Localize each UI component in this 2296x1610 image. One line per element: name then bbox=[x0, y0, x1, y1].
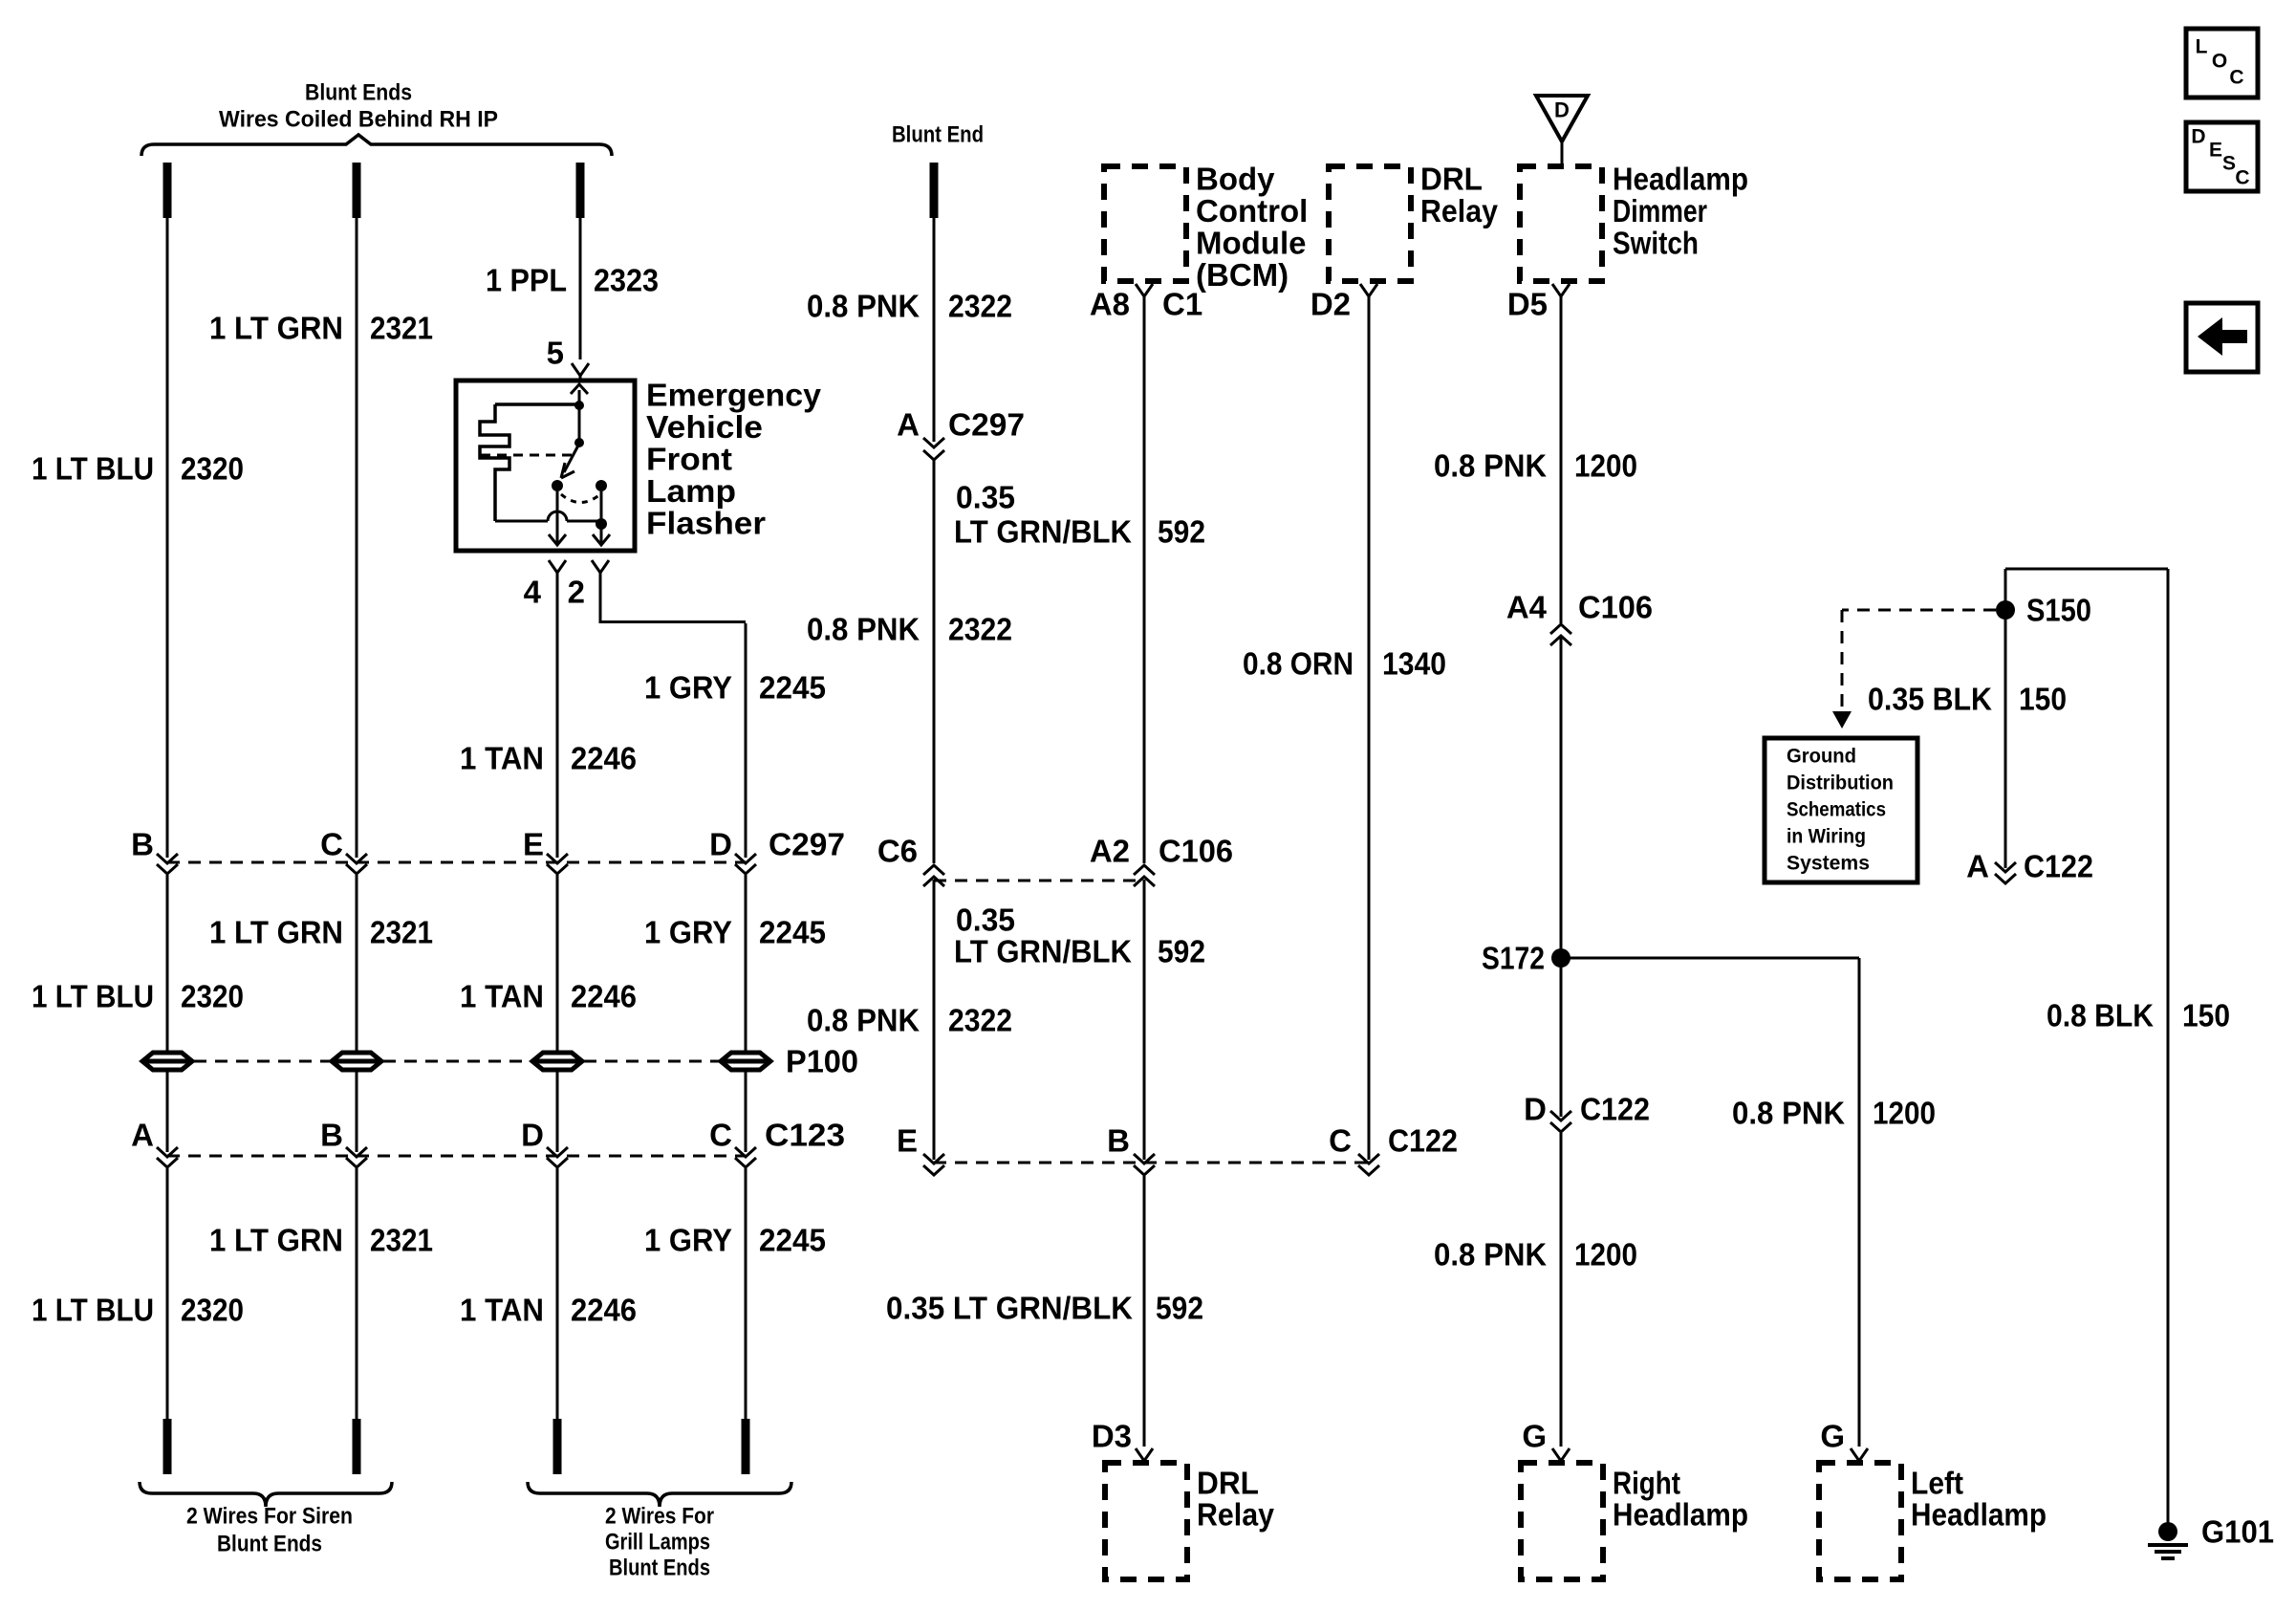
svg-text:Right: Right bbox=[1613, 1466, 1680, 1501]
svg-text:C123: C123 bbox=[765, 1118, 845, 1153]
svg-text:A: A bbox=[131, 1118, 154, 1153]
svg-text:Distribution: Distribution bbox=[1787, 772, 1894, 794]
svg-text:1 GRY: 1 GRY bbox=[644, 915, 732, 950]
svg-text:C106: C106 bbox=[1159, 834, 1233, 869]
svg-text:Front: Front bbox=[646, 442, 732, 477]
svg-text:C: C bbox=[320, 827, 343, 862]
svg-text:O: O bbox=[2212, 51, 2227, 73]
svg-text:150: 150 bbox=[2182, 998, 2230, 1033]
svg-text:2321: 2321 bbox=[370, 915, 433, 950]
svg-text:in Wiring: in Wiring bbox=[1787, 826, 1866, 848]
svg-text:Ground: Ground bbox=[1787, 746, 1856, 768]
svg-text:B: B bbox=[131, 827, 154, 862]
svg-text:C6: C6 bbox=[877, 834, 918, 869]
svg-text:2 Wires For Siren: 2 Wires For Siren bbox=[186, 1504, 353, 1530]
svg-text:D3: D3 bbox=[1092, 1419, 1132, 1454]
svg-text:C122: C122 bbox=[1388, 1123, 1458, 1159]
svg-text:1 PPL: 1 PPL bbox=[486, 263, 567, 298]
svg-text:LT GRN/BLK: LT GRN/BLK bbox=[954, 934, 1132, 969]
svg-text:2245: 2245 bbox=[759, 915, 826, 950]
svg-text:1200: 1200 bbox=[1574, 448, 1637, 484]
svg-text:2246: 2246 bbox=[571, 979, 637, 1014]
svg-text:1 LT GRN: 1 LT GRN bbox=[209, 915, 343, 950]
svg-text:1 LT BLU: 1 LT BLU bbox=[32, 979, 154, 1014]
svg-text:Blunt Ends: Blunt Ends bbox=[609, 1556, 710, 1581]
svg-text:2322: 2322 bbox=[948, 1003, 1012, 1038]
svg-text:0.35: 0.35 bbox=[956, 903, 1015, 938]
svg-text:0.35: 0.35 bbox=[956, 480, 1015, 515]
svg-text:1 LT GRN: 1 LT GRN bbox=[209, 1223, 343, 1258]
svg-text:D5: D5 bbox=[1507, 287, 1548, 322]
svg-text:Body: Body bbox=[1196, 162, 1275, 197]
svg-text:2245: 2245 bbox=[759, 670, 826, 706]
svg-text:5: 5 bbox=[547, 336, 564, 371]
svg-text:0.8 PNK: 0.8 PNK bbox=[1732, 1096, 1845, 1131]
svg-text:D: D bbox=[1554, 98, 1570, 122]
svg-text:2320: 2320 bbox=[181, 979, 244, 1014]
svg-text:P100: P100 bbox=[786, 1044, 858, 1079]
svg-text:1 GRY: 1 GRY bbox=[644, 670, 732, 706]
svg-text:0.8 BLK: 0.8 BLK bbox=[2047, 998, 2154, 1033]
svg-text:2322: 2322 bbox=[948, 612, 1012, 647]
svg-text:Wires Coiled Behind RH IP: Wires Coiled Behind RH IP bbox=[219, 107, 498, 133]
svg-text:A4: A4 bbox=[1506, 590, 1548, 625]
svg-text:D: D bbox=[709, 827, 732, 862]
svg-text:C: C bbox=[1329, 1123, 1352, 1159]
svg-text:1 GRY: 1 GRY bbox=[644, 1223, 732, 1258]
svg-text:S150: S150 bbox=[2026, 593, 2091, 628]
svg-text:C: C bbox=[709, 1118, 732, 1153]
svg-text:Emergency: Emergency bbox=[646, 378, 822, 413]
svg-text:Module: Module bbox=[1196, 226, 1306, 261]
svg-text:C106: C106 bbox=[1578, 590, 1653, 625]
svg-text:D: D bbox=[2191, 126, 2205, 148]
svg-text:0.8 PNK: 0.8 PNK bbox=[807, 289, 920, 324]
svg-text:1 LT GRN: 1 LT GRN bbox=[209, 311, 343, 346]
svg-text:1 LT BLU: 1 LT BLU bbox=[32, 1293, 154, 1328]
svg-text:Relay: Relay bbox=[1420, 193, 1499, 228]
svg-text:C: C bbox=[2229, 67, 2243, 89]
svg-text:1340: 1340 bbox=[1382, 646, 1446, 682]
svg-text:C297: C297 bbox=[769, 827, 845, 862]
svg-text:2 Wires For: 2 Wires For bbox=[605, 1504, 714, 1530]
svg-text:Blunt Ends: Blunt Ends bbox=[217, 1532, 322, 1557]
svg-text:2246: 2246 bbox=[571, 1293, 637, 1328]
svg-text:0.35 BLK: 0.35 BLK bbox=[1868, 682, 1992, 717]
svg-text:0.8 PNK: 0.8 PNK bbox=[1434, 448, 1547, 484]
svg-text:1200: 1200 bbox=[1873, 1096, 1936, 1131]
svg-text:Grill Lamps: Grill Lamps bbox=[605, 1530, 710, 1556]
svg-text:C: C bbox=[2235, 167, 2249, 189]
svg-text:1200: 1200 bbox=[1574, 1237, 1637, 1273]
svg-text:2246: 2246 bbox=[571, 741, 637, 776]
svg-text:LT GRN/BLK: LT GRN/BLK bbox=[954, 514, 1132, 550]
svg-text:150: 150 bbox=[2019, 682, 2067, 717]
svg-text:Switch: Switch bbox=[1613, 226, 1699, 261]
svg-text:Systems: Systems bbox=[1787, 853, 1870, 875]
svg-text:A2: A2 bbox=[1090, 834, 1130, 869]
svg-text:D: D bbox=[1524, 1092, 1547, 1127]
svg-text:G101: G101 bbox=[2201, 1514, 2274, 1550]
svg-text:Blunt End: Blunt End bbox=[892, 122, 984, 148]
svg-text:Headlamp: Headlamp bbox=[1613, 1497, 1748, 1533]
svg-text:1 TAN: 1 TAN bbox=[460, 979, 544, 1014]
svg-text:Control: Control bbox=[1196, 193, 1308, 228]
svg-text:592: 592 bbox=[1158, 934, 1205, 969]
svg-text:C122: C122 bbox=[1580, 1092, 1650, 1127]
svg-text:2322: 2322 bbox=[948, 289, 1012, 324]
svg-text:Relay: Relay bbox=[1197, 1497, 1275, 1533]
svg-text:592: 592 bbox=[1156, 1291, 1203, 1326]
svg-text:592: 592 bbox=[1158, 514, 1205, 550]
svg-text:G: G bbox=[1522, 1419, 1547, 1454]
svg-text:D2: D2 bbox=[1310, 287, 1351, 322]
svg-text:G: G bbox=[1820, 1419, 1845, 1454]
svg-text:A: A bbox=[897, 407, 920, 443]
svg-text:A: A bbox=[1966, 849, 1989, 884]
svg-text:2321: 2321 bbox=[370, 311, 433, 346]
svg-text:1 TAN: 1 TAN bbox=[460, 1293, 544, 1328]
svg-text:2: 2 bbox=[568, 575, 585, 610]
svg-text:D: D bbox=[521, 1118, 544, 1153]
svg-text:Blunt Ends: Blunt Ends bbox=[305, 80, 412, 106]
svg-text:0.8 PNK: 0.8 PNK bbox=[1434, 1237, 1547, 1273]
svg-text:Lamp: Lamp bbox=[646, 473, 736, 509]
svg-text:E: E bbox=[897, 1123, 918, 1159]
svg-text:L: L bbox=[2196, 36, 2208, 58]
svg-text:0.8 PNK: 0.8 PNK bbox=[807, 612, 920, 647]
svg-text:C1: C1 bbox=[1162, 287, 1202, 322]
svg-text:1 LT BLU: 1 LT BLU bbox=[32, 451, 154, 487]
svg-text:2320: 2320 bbox=[181, 1293, 244, 1328]
svg-text:B: B bbox=[320, 1118, 343, 1153]
svg-text:E: E bbox=[2209, 140, 2222, 162]
svg-text:C297: C297 bbox=[948, 407, 1025, 443]
svg-text:A8: A8 bbox=[1090, 287, 1130, 322]
svg-text:Left: Left bbox=[1911, 1466, 1963, 1501]
svg-text:2245: 2245 bbox=[759, 1223, 826, 1258]
svg-text:(BCM): (BCM) bbox=[1196, 257, 1289, 293]
svg-text:S172: S172 bbox=[1482, 941, 1545, 976]
svg-text:1 TAN: 1 TAN bbox=[460, 741, 544, 776]
svg-text:4: 4 bbox=[524, 575, 542, 610]
svg-text:DRL: DRL bbox=[1420, 162, 1483, 197]
svg-text:0.8 ORN: 0.8 ORN bbox=[1243, 646, 1354, 682]
svg-text:DRL: DRL bbox=[1197, 1466, 1259, 1501]
svg-text:Flasher: Flasher bbox=[646, 506, 766, 541]
svg-text:C122: C122 bbox=[2024, 849, 2093, 884]
svg-text:E: E bbox=[523, 827, 544, 862]
svg-text:0.8 PNK: 0.8 PNK bbox=[807, 1003, 920, 1038]
svg-text:S: S bbox=[2222, 153, 2236, 175]
svg-text:Headlamp: Headlamp bbox=[1613, 162, 1748, 197]
svg-text:Headlamp: Headlamp bbox=[1911, 1497, 2047, 1533]
svg-text:2320: 2320 bbox=[181, 451, 244, 487]
svg-text:2321: 2321 bbox=[370, 1223, 433, 1258]
svg-text:Dimmer: Dimmer bbox=[1613, 193, 1707, 228]
svg-text:Schematics: Schematics bbox=[1787, 799, 1886, 821]
svg-text:2323: 2323 bbox=[594, 263, 659, 298]
svg-text:0.35 LT GRN/BLK: 0.35 LT GRN/BLK bbox=[886, 1291, 1133, 1326]
svg-text:Vehicle: Vehicle bbox=[646, 409, 763, 445]
svg-text:B: B bbox=[1107, 1123, 1130, 1159]
